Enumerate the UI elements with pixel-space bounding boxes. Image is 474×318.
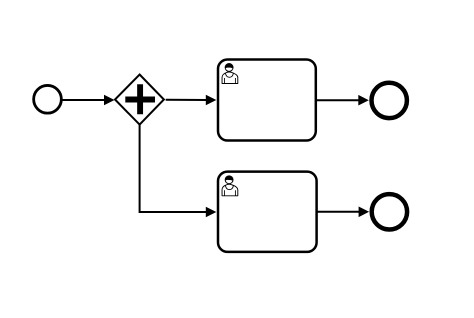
arrowhead into end1 (358, 95, 369, 106)
arrowhead into task1 (206, 95, 217, 106)
user task 2 icon (222, 176, 238, 196)
arrowhead into end2 (359, 207, 370, 218)
wire gateway->task1 (166, 99, 207, 101)
wire start->gateway (62, 99, 106, 101)
parallel gateway (diamond) (115, 75, 164, 125)
end event 1 (thick circle) (372, 83, 407, 118)
gateway plus marker (125, 84, 155, 114)
end event 2 (thick circle) (372, 194, 407, 229)
wire gateway->task2 (down then right) (140, 125, 207, 212)
user task 1 (rounded rect) (218, 60, 316, 141)
wire task2->end2 (318, 211, 360, 213)
arrowhead into gateway (104, 95, 115, 106)
arrowhead into task2 (206, 207, 217, 218)
user task 2 (rounded rect) (218, 172, 317, 252)
user task 1 icon (222, 64, 238, 84)
start event (circle) (34, 85, 62, 113)
wire task1->end1 (317, 99, 360, 101)
